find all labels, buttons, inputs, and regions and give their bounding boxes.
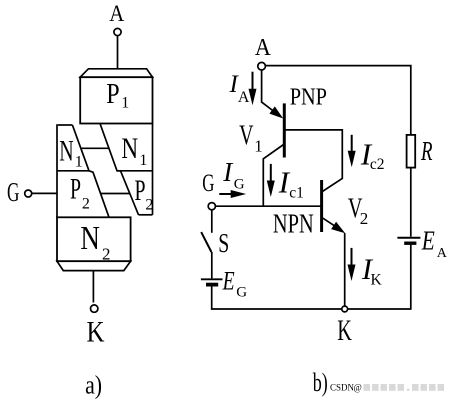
- diagonal B: [100, 124, 139, 215]
- svg-text:PNP: PNP: [290, 85, 327, 111]
- V1 emitter arrowhead (PNP): [269, 106, 283, 118]
- svg-text:A: A: [238, 89, 250, 106]
- P1 region box: [80, 77, 152, 123]
- left stack left edge: [56, 124, 58, 218]
- top wire from A to resistor branch: [265, 66, 410, 135]
- cathode node K circle: [342, 306, 348, 312]
- terminal K circle: [91, 305, 98, 312]
- svg-text:G: G: [202, 170, 214, 197]
- svg-text:A: A: [109, 1, 124, 26]
- cathode lead wire: [92, 271, 94, 303]
- wire battery EG to bottom: [211, 287, 213, 310]
- svg-text:2: 2: [82, 195, 90, 212]
- svg-text:1: 1: [75, 153, 83, 170]
- svg-text:@: @: [354, 383, 362, 393]
- V1 emitter wire: [262, 70, 274, 112]
- terminal G circle: [208, 203, 215, 210]
- wire R to battery EA: [410, 168, 412, 237]
- V1 collector wire: [263, 145, 283, 207]
- current arrow I_c2: [351, 135, 353, 152]
- current arrow I_G: [219, 193, 232, 195]
- wire battery EA to bottom corner: [410, 245, 412, 310]
- svg-text:b): b): [313, 368, 328, 397]
- svg-text:N: N: [80, 220, 100, 257]
- battery EA long plate: [397, 237, 420, 239]
- current arrow I_A: [252, 72, 254, 90]
- battery EG short plate: [206, 283, 218, 287]
- svg-text:K: K: [337, 314, 352, 347]
- V2 emitter wire: [322, 217, 336, 227]
- svg-text:I: I: [222, 157, 234, 187]
- band junction line upper: [81, 147, 109, 149]
- svg-text:G: G: [234, 177, 245, 193]
- svg-text:V: V: [239, 121, 253, 152]
- N2 region box: [57, 217, 131, 261]
- svg-text:P: P: [135, 174, 146, 207]
- right divider N1/P2: [117, 170, 153, 172]
- svg-text:E: E: [421, 226, 435, 256]
- svg-text:A: A: [255, 35, 272, 61]
- svg-text:A: A: [437, 246, 448, 261]
- svg-text:S: S: [218, 228, 229, 258]
- svg-text:R: R: [420, 136, 433, 166]
- current arrow I_K: [351, 248, 353, 266]
- svg-text:1: 1: [139, 152, 147, 169]
- svg-text:1: 1: [121, 95, 129, 112]
- right stack right edge: [152, 124, 154, 215]
- transistor V2 base bar: [320, 180, 323, 232]
- svg-text:P: P: [70, 173, 81, 206]
- svg-text:c1: c1: [289, 185, 304, 202]
- battery EA short plate: [404, 241, 416, 244]
- transistor V1 base bar: [283, 103, 286, 157]
- svg-text:E: E: [222, 266, 235, 295]
- current arrow I_c1: [270, 164, 272, 182]
- gate lead wire: [32, 192, 57, 194]
- V1 base to V2 collector wire: [284, 130, 342, 192]
- svg-text:2: 2: [360, 209, 369, 228]
- svg-text:K: K: [371, 272, 383, 289]
- terminal G circle: [25, 190, 32, 197]
- svg-text:NPN: NPN: [273, 209, 314, 239]
- cathode electrode: [57, 261, 131, 270]
- wire switch to battery EG: [211, 252, 213, 278]
- svg-text:N: N: [59, 134, 73, 167]
- anode electrode: [80, 69, 152, 77]
- terminal A circle: [258, 62, 266, 70]
- V2 emitter arrowhead (NPN): [331, 222, 345, 234]
- band junction line lower: [101, 193, 130, 195]
- svg-text:K: K: [87, 316, 105, 349]
- resistor R box: [407, 135, 416, 168]
- svg-text:a): a): [85, 371, 102, 400]
- svg-text:2: 2: [145, 197, 153, 214]
- left divider N1/P2: [57, 170, 89, 172]
- svg-text:G: G: [236, 285, 247, 301]
- right stack bottom edge: [139, 214, 153, 216]
- svg-text:1: 1: [254, 136, 263, 155]
- diagonal A: [72, 125, 109, 217]
- wire G circle to switch: [211, 210, 213, 233]
- svg-text:N: N: [121, 132, 138, 165]
- gate wire: [215, 205, 321, 207]
- anode lead wire: [117, 36, 119, 69]
- svg-text:G: G: [7, 177, 19, 207]
- V2 emitter vertical wire to K: [344, 233, 346, 309]
- battery EG long plate: [201, 278, 223, 280]
- svg-text:CSDN: CSDN: [330, 383, 355, 393]
- left stack top edge: [58, 124, 73, 126]
- svg-text:c2: c2: [370, 156, 385, 173]
- svg-text:P: P: [106, 78, 119, 110]
- bottom wire: [211, 308, 411, 310]
- terminal A circle: [114, 28, 121, 35]
- switch S blade: [201, 232, 211, 252]
